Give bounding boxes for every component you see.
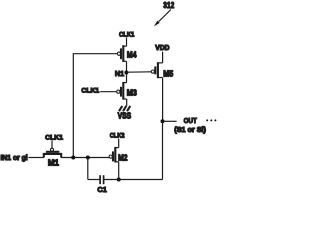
wire IN1 to M1 bbox=[28, 157, 44, 159]
node N1 dot bbox=[124, 71, 128, 75]
junction dot (feedback) bbox=[71, 156, 75, 160]
wire M2 source down bbox=[118, 162, 120, 180]
svg-text:CLK1: CLK1 bbox=[45, 134, 63, 141]
wire N1 to M5 gate bbox=[126, 71, 151, 73]
svg-text:VDD: VDD bbox=[155, 45, 169, 52]
wire CLK1 to M1 gate bbox=[51, 141, 53, 149]
transistor M5 bbox=[151, 62, 174, 78]
feedback wire (node A to M4 gate) bbox=[73, 54, 117, 158]
wire CLK2 to M2 drain bbox=[118, 139, 120, 148]
node OUT dot bbox=[161, 119, 165, 123]
svg-text:M3: M3 bbox=[127, 89, 138, 98]
svg-text:N1: N1 bbox=[115, 69, 124, 78]
wire OUT stub bbox=[165, 120, 177, 122]
wire OUT node down to bottom rail bbox=[162, 121, 164, 179]
ground VSS hatch bbox=[119, 106, 130, 111]
wire VDD to M5 drain bbox=[162, 52, 164, 63]
svg-text:CLK2: CLK2 bbox=[110, 132, 125, 139]
main wire M1 to M2 gate bbox=[61, 157, 109, 159]
junction dot below M2 bbox=[117, 178, 121, 182]
wire M3 source to VSS bbox=[126, 99, 128, 106]
svg-text:M4: M4 bbox=[127, 50, 137, 59]
transistor M3 bbox=[117, 82, 138, 100]
junction dot (C1 branch) bbox=[86, 156, 90, 160]
svg-text:312: 312 bbox=[163, 0, 174, 10]
wire CLK1 to M4 drain bbox=[126, 38, 128, 47]
svg-text:M1: M1 bbox=[48, 159, 60, 168]
wire C1 branch down bbox=[87, 158, 89, 180]
svg-text:C1: C1 bbox=[97, 185, 106, 194]
svg-text:(S1 or Si): (S1 or Si) bbox=[174, 127, 206, 134]
bottom rail right of C1 bbox=[104, 179, 162, 181]
svg-text:VSS: VSS bbox=[118, 111, 132, 120]
wire M4 source to M3 drain (through N1) bbox=[126, 61, 128, 82]
capacitor C1 bbox=[100, 175, 104, 184]
svg-text:M5: M5 bbox=[163, 69, 173, 78]
ellipsis dots bbox=[206, 119, 216, 121]
lead arrow to 312 bbox=[159, 10, 171, 22]
svg-text:M2: M2 bbox=[118, 153, 128, 162]
wire M5 source down to OUT node bbox=[162, 78, 164, 122]
svg-text:IN1 or gi: IN1 or gi bbox=[1, 155, 28, 162]
transistor M2 bbox=[109, 147, 128, 163]
transistor M4 bbox=[117, 45, 137, 62]
svg-text:CLK1: CLK1 bbox=[81, 87, 99, 94]
transistor M1 bbox=[44, 148, 61, 167]
bottom rail left of C1 bbox=[88, 179, 100, 181]
svg-text:CLK1: CLK1 bbox=[119, 31, 135, 38]
svg-text:OUT: OUT bbox=[184, 118, 198, 125]
wire CLK1 to M3 gate bubble bbox=[100, 91, 117, 93]
